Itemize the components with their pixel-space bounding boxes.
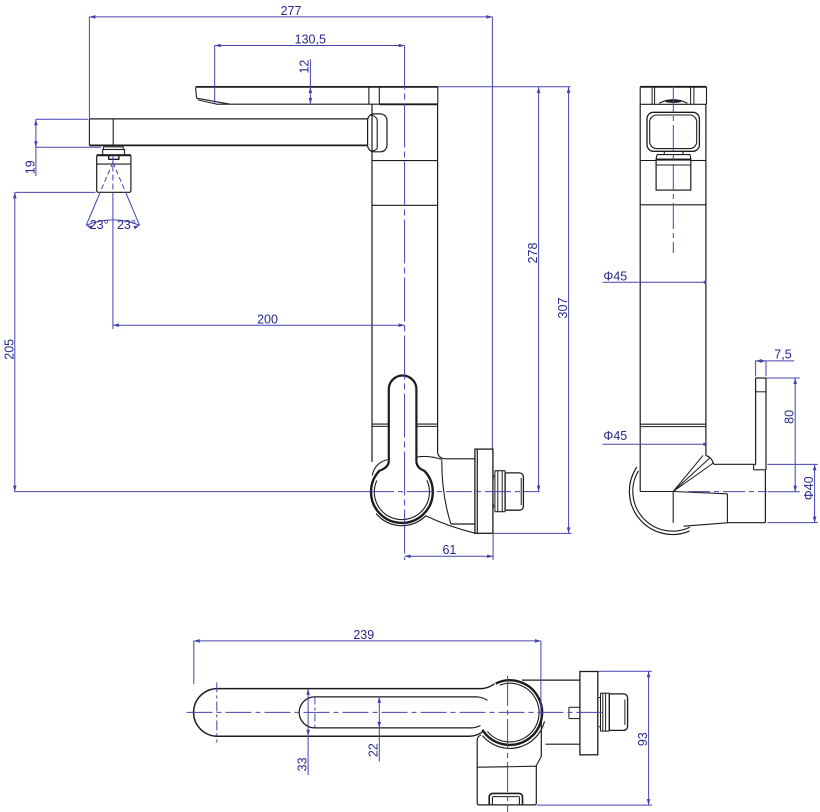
dimension 130.5 lever length bbox=[214, 46, 216, 104]
dimension diameter 40 outlet pipe bbox=[767, 463, 817, 465]
centerline: front aerator axis bbox=[112, 157, 114, 194]
svg-text:23°: 23° bbox=[90, 218, 109, 232]
side view: wall plate strip bbox=[756, 377, 766, 379]
top view: wall plate bbox=[580, 672, 598, 755]
dimension 278 height to outlet bbox=[438, 86, 571, 88]
dimension 93 top view depth bbox=[599, 670, 653, 672]
svg-text:33: 33 bbox=[296, 757, 310, 771]
front view: inlet thread bbox=[494, 471, 496, 512]
side view: aerator body bbox=[656, 159, 691, 190]
svg-text:277: 277 bbox=[281, 4, 302, 18]
svg-text:205: 205 bbox=[3, 339, 17, 360]
front view: aerator body bbox=[97, 155, 131, 192]
top view: spout capsule outer bbox=[194, 689, 483, 737]
svg-text:130,5: 130,5 bbox=[295, 33, 326, 47]
svg-text:19: 19 bbox=[23, 160, 37, 174]
dimension 22 inner width bbox=[378, 697, 380, 762]
spray cone arc bbox=[86, 220, 139, 225]
top view: spout capsule inner bbox=[299, 697, 478, 728]
top view: lever body from top bbox=[477, 735, 481, 803]
side view: body column bbox=[639, 104, 641, 491]
centerline: front body axis bbox=[404, 46, 406, 561]
front view: lever handle capsule bbox=[380, 376, 424, 471]
centerline: top view inner capsule crosshair bbox=[314, 697, 316, 731]
front view: swivel spout arm bbox=[89, 118, 367, 120]
svg-text:22: 22 bbox=[367, 743, 381, 757]
side view: spout tip lens bbox=[659, 100, 687, 104]
dimension 205 aerator height bbox=[15, 191, 96, 193]
top view: pipe to wall bbox=[522, 679, 580, 681]
centerline: side outlet axis bbox=[688, 491, 767, 493]
svg-text:Φ40: Φ40 bbox=[802, 476, 816, 500]
top view: lever grip tab bbox=[489, 793, 522, 805]
centerline: top view body axis bbox=[507, 676, 509, 812]
side view: aerator neck bbox=[663, 151, 665, 154]
dimension 200 spout reach bbox=[113, 324, 405, 326]
svg-text:12: 12 bbox=[298, 60, 312, 74]
front view: aerator collars bbox=[104, 147, 124, 150]
svg-text:61: 61 bbox=[442, 543, 456, 557]
dimension 277 overall length bbox=[88, 17, 90, 118]
dimension 239 top view length bbox=[193, 641, 195, 684]
svg-text:80: 80 bbox=[783, 410, 797, 424]
front view: body column bbox=[371, 104, 373, 462]
dimension 61 wall offset bbox=[492, 533, 494, 560]
top view: body circle bbox=[482, 680, 542, 745]
centerline: front outlet axis bbox=[14, 491, 368, 493]
spray cone solid lines bbox=[86, 192, 100, 225]
top view: body right face bbox=[540, 720, 542, 757]
dimension 12 lever thickness bbox=[309, 59, 311, 104]
side view: elbow bbox=[640, 491, 673, 493]
svg-text:278: 278 bbox=[526, 243, 540, 264]
svg-text:7,5: 7,5 bbox=[774, 347, 791, 361]
front view: collar arcs at lever base bbox=[372, 460, 387, 476]
svg-text:200: 200 bbox=[257, 312, 278, 326]
side view: lever plate band bbox=[640, 86, 706, 88]
front view: outlet pipe edges bbox=[445, 458, 475, 460]
front view: wall escutcheon plate bbox=[475, 449, 493, 533]
side view: spout arm cap bbox=[647, 112, 699, 151]
svg-text:93: 93 bbox=[636, 732, 650, 746]
centerline: top view spout tip crosshair bbox=[216, 682, 218, 742]
top view: thread bbox=[600, 693, 602, 731]
dimension 33 spout width bbox=[307, 689, 309, 775]
svg-text:239: 239 bbox=[353, 628, 374, 642]
front view: arm pivot end cap bbox=[368, 114, 387, 152]
front view: outlet cone tangent curve bbox=[442, 460, 451, 524]
svg-text:Φ45: Φ45 bbox=[603, 429, 627, 443]
dimension 307 overall height bbox=[493, 532, 571, 534]
dimension 7.5 plate thickness bbox=[755, 361, 757, 377]
centerline: side body axis bbox=[672, 86, 674, 253]
front view: lever ball circle bbox=[371, 470, 433, 523]
svg-text:307: 307 bbox=[556, 298, 570, 319]
front view: lever top plate bbox=[196, 86, 438, 88]
front view: inlet nut bbox=[505, 473, 523, 510]
svg-text:Φ45: Φ45 bbox=[603, 269, 627, 283]
svg-text:23°: 23° bbox=[117, 218, 136, 232]
spray cone dashed lines bbox=[100, 162, 113, 192]
centerline: top view horizontal axis bbox=[187, 711, 605, 713]
dimension 80 plate top to outlet bbox=[767, 377, 800, 379]
dimension 19 arm to aerator bbox=[36, 118, 88, 120]
top view: nut bbox=[609, 694, 627, 731]
